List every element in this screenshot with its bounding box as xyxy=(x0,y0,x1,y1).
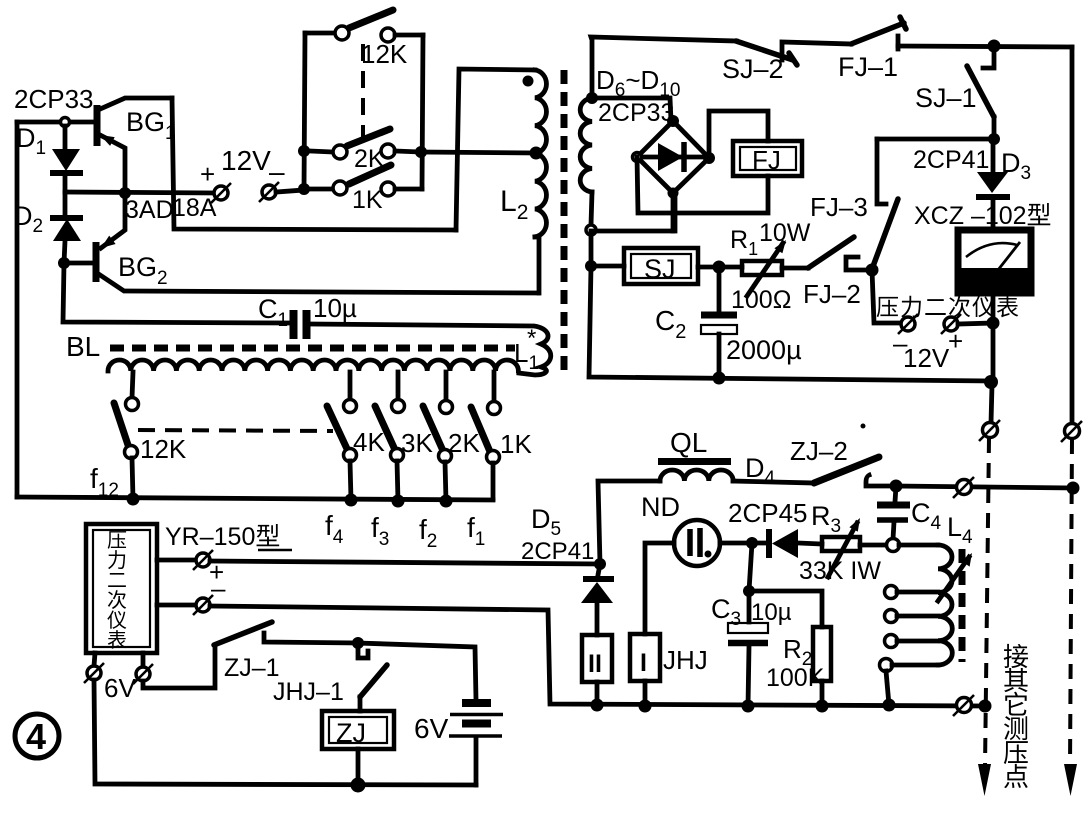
label JHJ-1 xyxy=(273,678,344,706)
tap f2 from L1 xyxy=(444,372,449,401)
label f4 f3 f2 f1 xyxy=(325,510,485,552)
label -12V+ xyxy=(893,326,963,373)
svg-text:–: – xyxy=(211,573,226,603)
bridge rectifier D6-D10 xyxy=(633,115,716,199)
wire SJ to R1 xyxy=(698,265,742,270)
label SJ-2 xyxy=(722,54,784,84)
terminal meter plus xyxy=(941,314,993,334)
label JHJ xyxy=(663,645,708,675)
wire 6V right to ZJ-1 xyxy=(143,645,215,688)
label BG1 xyxy=(126,107,176,144)
junction secondary top xyxy=(586,92,598,104)
terminal YR 6V left xyxy=(84,653,104,683)
switch f4 xyxy=(327,400,357,501)
junction C2 at bus xyxy=(713,372,726,385)
label connect other pressure points (vertical) xyxy=(1003,642,1029,792)
wire C3 branch down xyxy=(749,543,752,622)
mechanical link dashed (12K/2K/1K) xyxy=(361,44,365,142)
L4 tap 4 xyxy=(885,635,939,648)
inductor L4 tapped xyxy=(887,539,953,665)
wire switch-bank left rail xyxy=(304,33,305,190)
junction at L2 centre tap xyxy=(530,147,543,160)
svg-text:12V: 12V xyxy=(221,145,271,176)
svg-text:3AD: 3AD xyxy=(125,196,174,224)
wire ZJ to battery bus xyxy=(356,749,361,785)
switch 2K xyxy=(310,129,421,159)
svg-text:JHJ–1: JHJ–1 xyxy=(273,678,344,706)
core of L4 (dashed) xyxy=(959,549,966,662)
diode D2 xyxy=(50,196,83,263)
neon tube ND xyxy=(674,520,720,566)
label +12V- xyxy=(200,145,285,189)
rheostat R3 xyxy=(822,518,860,577)
svg-text:次: 次 xyxy=(107,589,127,612)
label D2 xyxy=(13,201,43,237)
wire YR plus out xyxy=(157,558,196,563)
relay coil ZJ box xyxy=(322,711,394,749)
adjust arrow L4 xyxy=(938,553,972,601)
junction at BG1/BG2 emitters xyxy=(119,187,131,199)
label L2 xyxy=(500,185,528,224)
junction left rail at 1K row xyxy=(298,183,310,195)
node secondary bottom xyxy=(586,225,596,235)
svg-text:ZJ: ZJ xyxy=(336,718,366,748)
wire meter bottom xyxy=(991,293,996,385)
label pressure meter (vertical in box) xyxy=(107,530,127,652)
switch f3 xyxy=(375,400,405,502)
wire QL to ZJ-2 xyxy=(733,481,814,483)
terminal YR 6V right xyxy=(133,653,153,684)
junction II at bus xyxy=(591,699,604,712)
label 4K xyxy=(353,427,385,457)
label 2000u xyxy=(726,335,802,365)
svg-text:10µ: 10µ xyxy=(751,599,792,626)
wire secondary top to SJ-2 xyxy=(591,37,736,98)
junction ZJ at bus xyxy=(351,778,366,793)
junction FJ-2/FJ-3 xyxy=(866,264,879,277)
svg-text:FJ–1: FJ–1 xyxy=(838,52,898,82)
wire relay bus right xyxy=(896,486,1073,488)
label D4 xyxy=(745,453,776,489)
wire f-switch bus xyxy=(17,497,493,500)
wire right rail (top) xyxy=(1070,47,1075,424)
junction D2/BG2 base node xyxy=(58,257,70,269)
label 6V (YR) xyxy=(104,673,136,703)
wire left rail from top wire down to f-switch bus xyxy=(15,122,20,497)
tap f1 from L1 xyxy=(492,372,497,402)
relay coil FJ box xyxy=(733,141,802,176)
label D5 2CP41 xyxy=(521,504,594,565)
terminal on relay bus xyxy=(953,477,974,498)
label 3AD18A xyxy=(125,194,217,224)
inductor L1 winding xyxy=(108,360,518,371)
svg-text:SJ–2: SJ–2 xyxy=(722,54,784,84)
svg-text:II: II xyxy=(588,650,602,678)
svg-text:2000µ: 2000µ xyxy=(726,335,802,365)
terminal test point 2 xyxy=(1061,421,1082,442)
label YR-150 xyxy=(165,523,292,551)
terminal 12V minus xyxy=(259,182,279,202)
wire top-left horizontal to BG1 base xyxy=(17,120,95,125)
L4 tap 2 xyxy=(885,586,939,599)
svg-text:ZJ–1: ZJ–1 xyxy=(224,654,280,682)
wire FJ junction down to meter terminals xyxy=(872,270,899,323)
wire R3 to L4 xyxy=(860,543,886,548)
relay coil SJ box xyxy=(624,248,698,284)
label 1K (f1) xyxy=(500,429,532,459)
label 2CP41 D3 xyxy=(913,146,1031,184)
rheostat R1 xyxy=(742,240,786,296)
svg-text:ZJ–2: ZJ–2 xyxy=(790,436,848,466)
terminal meter minus xyxy=(898,314,918,334)
label C2 xyxy=(655,305,686,343)
wire JHJ node to battery top xyxy=(358,643,476,700)
junction left rail at 2K row xyxy=(298,145,310,157)
svg-text:FJ: FJ xyxy=(752,145,781,175)
junction meter wire xyxy=(987,317,1000,330)
wire node to R2 xyxy=(749,591,822,627)
svg-text:100Ω: 100Ω xyxy=(731,286,791,314)
diode D3 xyxy=(976,139,1010,230)
speck xyxy=(861,424,866,429)
junction top right at SJ-1 xyxy=(988,40,1001,53)
label ZJ-1 xyxy=(224,654,280,682)
junction DC bus right end xyxy=(984,375,998,389)
svg-text:1K: 1K xyxy=(352,186,383,214)
svg-text:点: 点 xyxy=(1003,762,1029,792)
core of L1 (horizontal dashed) xyxy=(110,345,515,352)
diode D5 xyxy=(581,564,614,635)
svg-text:6V: 6V xyxy=(104,673,136,703)
wire switch-bank right rail xyxy=(422,35,423,189)
wire D5 node up to QL xyxy=(598,481,660,564)
junction f4 bus xyxy=(345,494,358,507)
label 2K xyxy=(354,145,385,173)
label ND xyxy=(641,492,680,522)
switch ZJ-1 xyxy=(214,622,358,645)
switch f1 xyxy=(471,402,501,500)
svg-text:二: 二 xyxy=(107,570,127,592)
inductor QL xyxy=(658,462,733,482)
wire YR plus to D5 node xyxy=(210,561,600,564)
wire down to DC bus xyxy=(589,266,991,381)
svg-text:2CP33: 2CP33 xyxy=(598,99,674,127)
terminal on bottom bus xyxy=(953,695,974,716)
label 2CP33 (for D1/D2) xyxy=(14,84,94,114)
junction D5 node xyxy=(594,558,606,570)
label L1 with star xyxy=(514,325,539,374)
wire D1/D2 node to +12V terminal xyxy=(65,192,216,193)
label D1 xyxy=(16,123,46,159)
label 1K xyxy=(352,186,383,214)
label BG2 xyxy=(118,252,168,289)
label C3 10u xyxy=(711,594,792,630)
wire minus terminal to switch rail xyxy=(276,190,304,192)
label SJ-1 xyxy=(915,83,977,113)
svg-text:+: + xyxy=(200,159,215,189)
battery 6V xyxy=(449,703,503,785)
svg-text:FJ–2: FJ–2 xyxy=(803,279,861,309)
svg-text:YR–150型: YR–150型 xyxy=(165,523,280,551)
label 2CP45 xyxy=(728,498,808,528)
label pressure secondary meter (right) xyxy=(876,294,1020,320)
polarity dot L2 xyxy=(523,76,534,87)
svg-text:FJ–3: FJ–3 xyxy=(810,192,868,222)
wire BG1 collector to top bus xyxy=(172,98,456,230)
switch 12K (top) xyxy=(305,10,423,42)
wire FJ-3 top to D3 node xyxy=(877,137,994,142)
svg-text:100K: 100K xyxy=(766,664,825,692)
label R1 10W xyxy=(730,219,811,259)
junction at C2 top xyxy=(713,261,726,274)
label 3K xyxy=(401,428,433,458)
svg-text:力: 力 xyxy=(107,549,127,572)
L4 tap 3 xyxy=(885,610,939,623)
switch ZJ-2 xyxy=(814,457,896,486)
label FJ-1 xyxy=(838,52,898,82)
label C4 L4 xyxy=(911,498,973,548)
svg-text:2K: 2K xyxy=(448,428,480,458)
tap f4 from L1 xyxy=(348,372,353,400)
label 2K (f2) xyxy=(448,428,480,458)
label 2CP33 (bridge) xyxy=(598,99,674,127)
terminal test point 1 xyxy=(979,385,1000,441)
junction JHJ-1 node xyxy=(352,637,364,649)
switch SJ-2 xyxy=(736,41,851,65)
svg-text:+: + xyxy=(948,326,963,356)
svg-text:12K: 12K xyxy=(140,434,187,464)
capacitor C1 xyxy=(294,310,307,339)
label ZJ-2 xyxy=(790,436,848,466)
label BL xyxy=(66,331,100,362)
L4 bottom tap xyxy=(880,659,939,706)
svg-text:XCZ –102型: XCZ –102型 xyxy=(914,202,1052,230)
svg-text:BL: BL xyxy=(66,331,100,362)
junction L4 at bus xyxy=(883,699,896,712)
diode 2CP45 xyxy=(752,529,822,558)
junction bottom bus right end xyxy=(979,700,992,713)
resistor R2 xyxy=(813,627,831,706)
switch f2 xyxy=(423,401,453,502)
svg-text:10µ: 10µ xyxy=(313,293,357,323)
label FJ-2 xyxy=(803,279,861,309)
svg-text:6V: 6V xyxy=(414,713,449,744)
label C1 10u xyxy=(258,293,357,331)
svg-text:1K: 1K xyxy=(500,429,532,459)
wire C1 to L1 right end curl xyxy=(310,324,551,375)
meter box YR-150 xyxy=(86,524,157,653)
svg-text:仪: 仪 xyxy=(107,610,127,632)
wire centre tap to L2 xyxy=(421,152,536,153)
svg-text:I: I xyxy=(640,649,647,677)
label 100ohm xyxy=(731,286,791,314)
junction f2 bus xyxy=(440,495,453,508)
label 33K 1W xyxy=(799,557,881,585)
relay contact box II xyxy=(582,635,612,705)
label R3 xyxy=(811,501,841,537)
inductor L2 primary xyxy=(535,70,546,293)
switch FJ-3 xyxy=(872,139,898,269)
label XCZ-102 xyxy=(914,202,1052,230)
terminal +12V plus xyxy=(211,183,231,203)
wire YR minus to relay bus xyxy=(210,606,985,706)
junction right rail to L2 centre tap xyxy=(415,146,427,158)
wire secondary to SJ junction xyxy=(585,260,624,272)
label f12 xyxy=(90,463,119,501)
junction at C3 top node xyxy=(746,537,758,549)
junction C4 top xyxy=(890,480,903,493)
svg-text:12K: 12K xyxy=(361,39,408,69)
junction f3 bus xyxy=(392,495,405,508)
capacitor C3 xyxy=(728,623,768,706)
label R2 100K xyxy=(766,634,825,692)
junction C3 at bus xyxy=(742,700,755,713)
label FJ-3 xyxy=(810,192,868,222)
label 6V (battery) xyxy=(414,713,449,744)
tap f12 from L1 xyxy=(132,372,133,398)
label QL xyxy=(670,427,707,458)
junction D3 top xyxy=(988,133,1000,145)
wire 6V left down to battery bus xyxy=(94,680,476,785)
switch 1K xyxy=(310,165,422,196)
wire SJ-1 to D3 xyxy=(992,117,997,139)
relay contact box I (JHJ) xyxy=(630,634,660,706)
wire ND right to diode node xyxy=(720,541,752,546)
tap f3 from L1 xyxy=(396,372,401,400)
svg-text:2CP33: 2CP33 xyxy=(14,84,94,114)
svg-text:3K: 3K xyxy=(401,428,433,458)
terminal YR plus xyxy=(193,550,213,570)
svg-text:4: 4 xyxy=(26,716,46,757)
diode D1 xyxy=(50,126,83,192)
svg-text:压: 压 xyxy=(107,530,127,552)
svg-text:2CP45: 2CP45 xyxy=(728,498,808,528)
transistor BG1 xyxy=(97,98,172,193)
svg-text:JHJ: JHJ xyxy=(663,645,708,675)
dashed test lead 2 xyxy=(1064,439,1077,796)
node at D1 anode xyxy=(61,118,70,127)
capacitor C4 xyxy=(877,486,910,539)
svg-text:4K: 4K xyxy=(353,427,385,457)
terminal YR minus xyxy=(193,595,213,615)
label 12K xyxy=(361,39,408,69)
transformer core (vertical dashed) xyxy=(561,70,568,376)
svg-text:*: * xyxy=(527,325,536,352)
junction f12 bus xyxy=(127,493,140,506)
figure number 4 circled xyxy=(15,714,59,758)
junction I at bus xyxy=(639,700,652,713)
svg-text:SJ: SJ xyxy=(644,254,676,284)
junction R2 at bus xyxy=(816,700,829,713)
switch FJ-2 xyxy=(808,237,872,270)
dashed test lead 1 xyxy=(978,438,991,796)
wire bridge top feed xyxy=(592,98,671,121)
switch f12 xyxy=(114,398,139,500)
capacitor C2 xyxy=(701,267,737,378)
svg-text:33K IW: 33K IW xyxy=(799,557,881,585)
wire R1 to FJ-2 xyxy=(782,266,808,271)
switch JHJ-1 xyxy=(358,643,387,711)
mechanical link dashed f12-f4 xyxy=(138,430,333,431)
label + (YR) xyxy=(209,557,224,587)
label - (YR) xyxy=(211,573,226,603)
svg-text:2CP41: 2CP41 xyxy=(913,146,989,174)
svg-text:2CP41: 2CP41 xyxy=(521,538,594,565)
svg-text:SJ–1: SJ–1 xyxy=(915,83,977,113)
svg-text:10W: 10W xyxy=(759,219,811,247)
wire ND left to relay I xyxy=(645,543,674,634)
svg-text:ND: ND xyxy=(641,492,680,522)
inductor L2 secondary winding xyxy=(580,98,592,225)
svg-text:12V: 12V xyxy=(903,343,950,373)
svg-text:QL: QL xyxy=(670,427,707,458)
junction C3/R2 node xyxy=(743,585,755,597)
svg-text:18A: 18A xyxy=(172,194,217,222)
wire top bus riser to L2 top xyxy=(456,69,535,230)
transistor BG2 xyxy=(64,193,538,293)
wire BG2 base node down to C1 xyxy=(63,263,290,323)
wire YR minus out xyxy=(157,603,196,608)
switch FJ-1 xyxy=(851,17,1072,49)
wire bridge + to FJ top xyxy=(709,111,768,158)
switch SJ-1 xyxy=(967,46,994,117)
label 12K (f12) xyxy=(140,434,187,464)
label D6~D10 xyxy=(596,65,680,101)
meter XCZ-102 xyxy=(958,230,1031,293)
svg-text:表: 表 xyxy=(107,629,127,652)
junction relay bus at dashed lead xyxy=(1067,482,1080,495)
wire bridge - to FJ bottom xyxy=(637,157,768,213)
wire secondary bottom to bridge bottom xyxy=(591,194,675,266)
wire bridge bottom stub xyxy=(671,193,676,231)
